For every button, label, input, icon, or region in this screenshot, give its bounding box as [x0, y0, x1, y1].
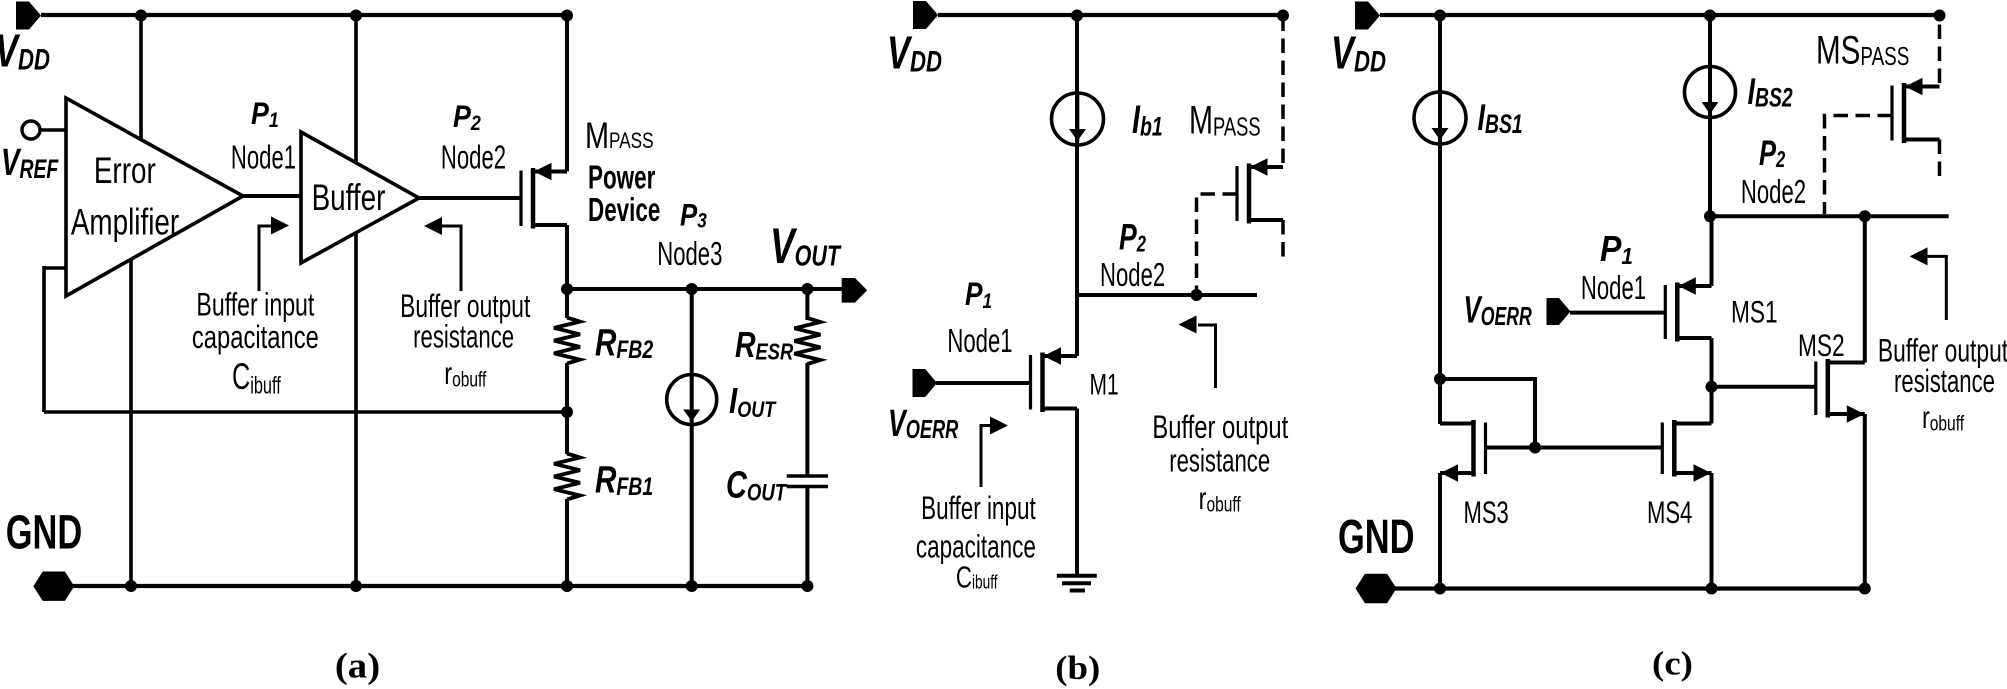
- label M1: [1090, 369, 1119, 401]
- junction MS3 MS4 gate line (c): [1529, 442, 1541, 454]
- label Node3: [657, 236, 722, 272]
- label IBS2: [1748, 71, 1793, 113]
- junction RESR branch (a): [801, 283, 813, 295]
- wire top rail VDD (a): [41, 13, 567, 17]
- resistor RFB1: [554, 454, 580, 500]
- power flag VDD (b): [913, 1, 938, 29]
- svg-text:Buffer input: Buffer input: [196, 286, 314, 323]
- wire ground rail (c): [1395, 586, 1865, 590]
- current source IBS1: [1414, 92, 1466, 144]
- svg-text:GND: GND: [6, 505, 82, 559]
- wire VOERR to MS1 gate: [1570, 311, 1665, 315]
- wire MS4 drain up to MS1 drain node (c): [1710, 387, 1714, 424]
- label P2 (c): [1759, 133, 1785, 173]
- label RFB2: [595, 322, 654, 364]
- buffer triangle: [301, 132, 419, 263]
- wire VDD to buffer top (a): [354, 15, 358, 164]
- label P1 (b): [965, 278, 992, 314]
- transistor MSPASS dashed (c): [1892, 78, 1940, 143]
- label RFB1: [595, 459, 653, 501]
- wire IOUT branch vertical: [690, 289, 694, 586]
- wire top rail VDD (b): [938, 13, 1283, 17]
- label Power Device: [588, 158, 655, 195]
- label VDD (c): [1331, 27, 1386, 79]
- ground symbol GND hexagon (a): [33, 572, 74, 601]
- svg-text:Buffer output: Buffer output: [1152, 409, 1288, 446]
- junction on VDD rail at error amp (a): [135, 10, 147, 22]
- node2 line (b): [1077, 293, 1257, 297]
- svg-text:Node1: Node1: [947, 323, 1012, 359]
- label GND (c): [1338, 509, 1414, 563]
- junction node2 at MS2 drain (c): [1859, 210, 1871, 222]
- junction on VDD rail at MPASS (a): [561, 10, 573, 22]
- label MS2: [1798, 327, 1845, 363]
- wire dashed MSPASS drain (c): [1938, 140, 1942, 183]
- wire MS1 source to node2 (c): [1710, 216, 1714, 286]
- svg-text:MS2: MS2: [1798, 327, 1845, 363]
- junction VDD rail at IBS1 (c): [1434, 10, 1446, 22]
- label Ib1: [1132, 98, 1163, 143]
- svg-text:MS3: MS3: [1464, 494, 1509, 530]
- label Buffer: [312, 176, 386, 218]
- transistor MPASS dashed (b): [1237, 158, 1283, 223]
- label MPASS (b): [1189, 98, 1261, 143]
- svg-text:Error: Error: [94, 149, 156, 191]
- label (a): [335, 647, 380, 686]
- wire dashed MSPASS gate (c): [1825, 116, 1893, 215]
- svg-text:Node3: Node3: [657, 236, 722, 272]
- wire MS3 MS4 gate line (c): [1486, 446, 1663, 450]
- wire buffer output to MPASS gate: [419, 196, 521, 200]
- current source Ib1: [1052, 93, 1104, 145]
- svg-text:(c): (c): [1652, 645, 1693, 682]
- label buffer output resistance (b): [1152, 409, 1288, 446]
- transistor MPASS pmos (a): [521, 163, 567, 229]
- label GND (a): [6, 505, 82, 559]
- svg-text:Node1: Node1: [1581, 270, 1646, 306]
- input terminal VREF circle: [22, 121, 40, 139]
- wire MPASS source to VDD rail (a): [565, 15, 569, 172]
- wire VDD to error amplifier top (a): [139, 15, 143, 141]
- wire feedback vertical (a): [42, 266, 46, 412]
- label MS3: [1464, 494, 1509, 530]
- node VOUT output line: [567, 287, 842, 291]
- junction feedback tap (a): [561, 406, 573, 418]
- junction MPASS gate on node2 (b): [1191, 289, 1203, 301]
- junction VDD rail at MPASS dashed (b): [1277, 10, 1289, 22]
- label Amplifier: [71, 200, 179, 242]
- annotation arrow buffer output resistance (a): [441, 226, 461, 291]
- label Cibuff (b): [956, 560, 998, 594]
- input flag VOERR (c): [1547, 298, 1571, 325]
- annotation arrow buffer output resistance (c): [1927, 256, 1946, 320]
- label Cibuff (a): [232, 355, 281, 399]
- label buffer input capacitance (b): [921, 490, 1036, 526]
- wire MS2 gate line (c): [1712, 385, 1816, 389]
- capacitor COUT: [787, 474, 828, 478]
- junction MS3 ground (c): [1434, 583, 1446, 595]
- label buffer output resistance (c): [1878, 333, 2007, 369]
- power flag VDD (c): [1355, 2, 1380, 30]
- current source IOUT: [667, 375, 717, 425]
- wire MS1 drain to gate node (c): [1710, 338, 1714, 387]
- label (c): [1652, 645, 1693, 682]
- label VOERR (b): [888, 401, 959, 444]
- transistor M1 pmos: [1031, 347, 1078, 412]
- junction IBS1 mirror tap (c): [1434, 373, 1446, 385]
- wire Ib1 branch vertical (b): [1075, 15, 1079, 356]
- wire MS2 drain to node2 (c): [1863, 216, 1867, 362]
- wire error amplifier bottom to ground rail (a): [129, 258, 133, 586]
- label RESR: [735, 324, 794, 366]
- svg-text:Node2: Node2: [1741, 174, 1806, 210]
- wire RFB1 to ground rail: [565, 499, 569, 586]
- label VOUT: [770, 219, 842, 275]
- label VDD (a): [0, 25, 50, 77]
- junction COUT ground (a): [801, 580, 813, 592]
- transistor MS4 nmos: [1662, 420, 1711, 482]
- label Node2 (c): [1741, 174, 1806, 210]
- transistor MS1 pmos: [1665, 277, 1711, 341]
- junction VDD rail at IBS2 (c): [1704, 10, 1716, 22]
- label Node1 (c): [1581, 270, 1646, 306]
- wire output node to RFB2: [565, 289, 569, 318]
- svg-text:Node2: Node2: [441, 139, 506, 175]
- label robuff (c): [1922, 400, 1965, 436]
- svg-text:resistance: resistance: [413, 318, 514, 354]
- resistor RFB2: [554, 318, 580, 364]
- svg-text:Buffer input: Buffer input: [921, 490, 1036, 526]
- wire COUT to ground rail: [805, 487, 809, 587]
- transistor MS2 nmos: [1816, 359, 1865, 423]
- wire top rail VDD (c): [1380, 13, 1940, 17]
- label P1 (c): [1600, 229, 1633, 269]
- ground symbol (b): [1057, 574, 1097, 578]
- wire dashed MSPASS source to rail (c): [1938, 17, 1942, 83]
- wire dashed MPASS drain (b): [1281, 220, 1285, 261]
- wire ground rail (a): [73, 584, 810, 588]
- wire VOERR to M1 gate: [936, 381, 1031, 385]
- node2 line (c): [1710, 214, 1949, 218]
- svg-text:GND: GND: [1338, 509, 1414, 563]
- annotation arrow buffer input capacitance (a): [259, 226, 273, 291]
- junction on VDD rail at buffer (a): [350, 10, 362, 22]
- label Node2 (b): [1100, 257, 1165, 293]
- wire MPASS drain to output node (a): [565, 225, 569, 290]
- label P3: [680, 198, 707, 233]
- wire feedback stub to error amp inverting input: [44, 266, 66, 270]
- svg-text:capacitance: capacitance: [192, 319, 319, 356]
- output flag VOUT: [842, 278, 868, 303]
- label robuff (b): [1199, 481, 1242, 517]
- wire MS3 source to ground (c): [1438, 473, 1442, 589]
- wire mirror tap to gates (c): [1440, 379, 1535, 448]
- label IBS1: [1478, 97, 1523, 139]
- junction node2 at MS1 source (c): [1704, 210, 1716, 222]
- svg-text:Buffer: Buffer: [312, 176, 386, 218]
- junction IOUT ground (a): [686, 580, 698, 592]
- label Node2 (a): [441, 139, 506, 175]
- label (b): [1055, 649, 1100, 686]
- junction buffer ground (a): [350, 580, 362, 592]
- wire MS2 source to ground (c): [1863, 414, 1867, 589]
- label P2 (b): [1119, 216, 1146, 257]
- wire feedback horizontal to RFB node (a): [44, 410, 567, 414]
- junction VDD rail at MSPASS dashed (c): [1934, 10, 1946, 22]
- label IOUT: [729, 380, 777, 422]
- op-amp error amplifier triangle: [66, 98, 243, 296]
- power flag VDD (a): [16, 2, 41, 30]
- label VREF: [1, 142, 59, 184]
- current source IBS2: [1685, 67, 1736, 118]
- label P2 (a): [453, 100, 481, 135]
- junction MS1 drain MS2 gate (c): [1706, 381, 1718, 393]
- svg-text:MS4: MS4: [1647, 494, 1692, 530]
- label Error: [94, 149, 156, 191]
- wire buffer bottom to ground rail (a): [354, 232, 358, 586]
- junction MPASS drain output (a): [561, 283, 573, 295]
- svg-text:MS1: MS1: [1731, 294, 1778, 330]
- resistor RESR: [794, 318, 820, 364]
- input flag VOERR (b): [913, 369, 938, 397]
- wire error amp output to buffer: [243, 194, 302, 198]
- svg-text:Device: Device: [588, 190, 660, 227]
- junction MS2 ground (c): [1859, 583, 1871, 595]
- wire M1 drain to ground (b): [1075, 409, 1079, 577]
- junction error amp ground (a): [125, 580, 137, 592]
- svg-text:resistance: resistance: [1169, 442, 1270, 478]
- wire dashed MPASS source to rail (b): [1281, 17, 1285, 163]
- junction IOUT branch (a): [686, 283, 698, 295]
- label buffer output resistance (a): [400, 288, 530, 324]
- svg-text:M1: M1: [1090, 369, 1119, 401]
- label MS1: [1731, 294, 1778, 330]
- wire RFB2 to feedback node: [565, 363, 569, 454]
- wire RESR to COUT: [805, 363, 809, 476]
- wire IBS1 branch vertical (c): [1438, 15, 1442, 424]
- ground symbol GND hexagon (c): [1356, 574, 1397, 603]
- label MS4: [1647, 494, 1692, 530]
- annotation arrow buffer input capacitance (b): [981, 426, 1000, 488]
- svg-text:(b): (b): [1055, 649, 1100, 686]
- label VOERR (c): [1464, 288, 1532, 330]
- label Node1 (b): [947, 323, 1012, 359]
- label MSPASS: [1816, 28, 1909, 72]
- wire VREF to error amplifier: [40, 128, 67, 131]
- junction RFB1 ground (a): [561, 580, 573, 592]
- label P1 (a): [251, 97, 279, 132]
- wire RESR branch from output: [805, 289, 809, 320]
- svg-text:capacitance: capacitance: [916, 528, 1036, 564]
- junction VDD rail at Ib1 (b): [1071, 10, 1083, 22]
- junction MS4 ground (c): [1706, 583, 1718, 595]
- transistor MS3 nmos mirrored: [1440, 420, 1486, 482]
- wire MS4 source to ground (c): [1710, 473, 1714, 589]
- svg-text:Node1: Node1: [231, 139, 296, 175]
- label Node1 (a): [231, 139, 296, 175]
- svg-text:Amplifier: Amplifier: [71, 200, 179, 242]
- svg-text:resistance: resistance: [1894, 363, 1995, 399]
- svg-text:(a): (a): [335, 647, 380, 686]
- label robuff (a): [444, 356, 487, 392]
- annotation arrow buffer output resistance (b): [1198, 325, 1216, 388]
- svg-text:Node2: Node2: [1100, 257, 1165, 293]
- wire dashed MPASS gate (b): [1197, 194, 1238, 293]
- wire IBS2 branch vertical (c): [1708, 15, 1712, 216]
- label buffer input capacitance (a): [196, 286, 314, 323]
- label MPASS (a): [585, 116, 654, 157]
- label VDD (b): [887, 27, 942, 79]
- label COUT: [726, 464, 788, 507]
